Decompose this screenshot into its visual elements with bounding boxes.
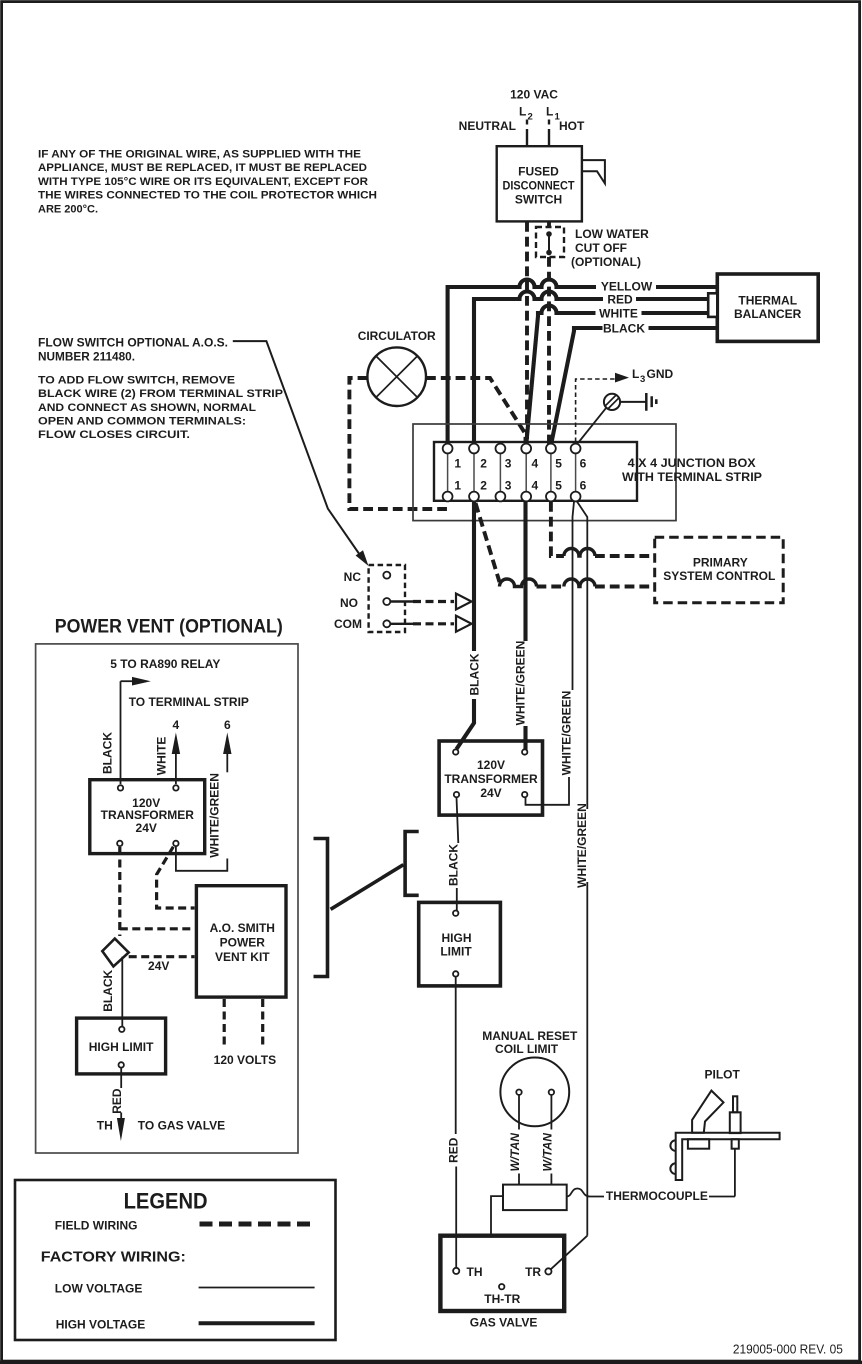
wire dashed 24V to vent kit: [129, 955, 195, 958]
arrowhead L3 GND: [615, 373, 629, 383]
svg-text:TH: TH: [97, 1119, 113, 1133]
svg-text:PRIMARY: PRIMARY: [693, 556, 748, 570]
svg-text:BLACK WIRE (2) FROM TERMINAL: BLACK WIRE (2) FROM TERMINAL STRIP: [38, 388, 283, 400]
wire bracket connector diagonal: [331, 865, 404, 910]
svg-text:GAS VALVE: GAS VALVE: [470, 1315, 538, 1329]
wire dashed pv transformer left down: [118, 847, 121, 936]
junction box outer: [413, 424, 676, 521]
svg-text:BLACK: BLACK: [468, 653, 482, 695]
wire screw to terminal 6: [578, 408, 606, 443]
wire W/TAN left: [518, 1095, 520, 1130]
wire W/TAN right: [550, 1095, 552, 1130]
wire block left lead to gas valve: [491, 1196, 503, 1236]
wire high limit down to gas valve TH: [455, 977, 457, 1135]
svg-text:IF ANY OF THE ORIGINAL WIRE, A: IF ANY OF THE ORIGINAL WIRE, AS SUPPLIED…: [38, 149, 361, 161]
svg-text:24V: 24V: [136, 821, 157, 835]
transformer 120V/24V box pv: [90, 780, 205, 854]
terminal circles row 2 bottom: [443, 492, 453, 502]
wire YELLOW: terminal 1 up and right to thermal balancer: [448, 280, 717, 447]
thermocouple probe tip: [733, 1096, 737, 1112]
svg-text:TO TERMINAL STRIP: TO TERMINAL STRIP: [129, 695, 249, 709]
terminal strip inner box: [434, 442, 637, 501]
wire nut diamond: [102, 939, 128, 967]
svg-text:6: 6: [580, 457, 587, 471]
wire L1 drop to switch: [548, 120, 550, 147]
svg-text:DISCONNECT: DISCONNECT: [503, 178, 576, 192]
svg-text:AND CONNECT AS SHOWN, NORMAL: AND CONNECT AS SHOWN, NORMAL: [38, 402, 256, 414]
svg-text:WITH TYPE 105°C WIRE OR ITS EQ: WITH TYPE 105°C WIRE OR ITS EQUIVALENT, …: [38, 176, 368, 188]
svg-text:CIRCULATOR: CIRCULATOR: [358, 329, 436, 343]
svg-text:RED: RED: [607, 293, 633, 307]
svg-text:HIGH VOLTAGE: HIGH VOLTAGE: [56, 1318, 146, 1332]
svg-text:VENT KIT: VENT KIT: [215, 950, 270, 964]
svg-text:NC: NC: [344, 570, 362, 584]
wire thermocouple squiggle: [567, 1189, 603, 1197]
svg-text:POWER VENT (OPTIONAL): POWER VENT (OPTIONAL): [55, 617, 283, 638]
svg-text:WHITE: WHITE: [155, 737, 169, 776]
fused disconnect switch box: [497, 146, 582, 221]
power vent enclosure box: [36, 644, 298, 1153]
svg-text:TO ADD FLOW SWITCH, REMOVE: TO ADD FLOW SWITCH, REMOVE: [38, 375, 235, 387]
svg-text:219005-000 REV. 05: 219005-000 REV. 05: [733, 1342, 843, 1357]
wire dashed to vent kit middle: [120, 927, 195, 930]
thermocouple probe body: [730, 1112, 741, 1133]
open arrow NO: [456, 594, 472, 610]
low voltage sample line: [199, 1287, 315, 1289]
wire L2 drop to switch: [526, 120, 528, 147]
wire RED: terminal 2 up and right to thermal balancer connector: [474, 292, 710, 448]
wire dashed terminal 5 to primary system control: [551, 502, 564, 556]
svg-text:5 TO RA890 RELAY: 5 TO RA890 RELAY: [110, 657, 220, 671]
svg-text:LIMIT: LIMIT: [440, 945, 472, 959]
svg-text:L: L: [632, 367, 639, 381]
wire BLACK terminal 2 down to transformer: [472, 502, 476, 652]
terminal pair links: [448, 453, 576, 492]
svg-text:NEUTRAL: NEUTRAL: [459, 119, 516, 133]
leader arrowhead: [356, 550, 369, 566]
svg-text:OPEN AND COMMON TERMINALS:: OPEN AND COMMON TERMINALS:: [38, 416, 246, 428]
coil limit terminals: [516, 1090, 521, 1095]
wire thin dashed pointer from terminal 6 to L3 GND: [576, 379, 615, 442]
high limit box pv: [77, 1018, 166, 1074]
wire thin WHITE/GREEN terminal 6 to transformer: [573, 502, 575, 691]
svg-text:THERMOCOUPLE: THERMOCOUPLE: [606, 1189, 708, 1203]
svg-text:3: 3: [505, 479, 512, 493]
svg-text:COIL LIMIT: COIL LIMIT: [495, 1042, 559, 1056]
wire transformer secondary black: [457, 798, 459, 844]
wire diamond down to high limit pv: [121, 957, 123, 1027]
high voltage sample line: [199, 1321, 315, 1325]
thermal balancer box: [717, 274, 818, 341]
svg-text:6: 6: [224, 718, 231, 732]
svg-text:2: 2: [528, 112, 533, 123]
wire WHITE: diagonal from terminal 4 up to corner then right: [526, 306, 710, 445]
svg-text:5: 5: [555, 457, 562, 471]
svg-text:TH-TR: TH-TR: [484, 1292, 520, 1306]
svg-text:120 VOLTS: 120 VOLTS: [214, 1053, 276, 1067]
wire BLACK: diagonal from terminal 5 up to corner then right: [551, 328, 717, 445]
wire dashed 120 volts feeds: [223, 999, 226, 1049]
thermocouple junction block: [503, 1185, 567, 1211]
arrow to gas valve: [117, 1118, 125, 1141]
svg-text:FACTORY WIRING:: FACTORY WIRING:: [41, 1249, 186, 1266]
svg-text:BLACK: BLACK: [101, 969, 115, 1011]
svg-text:SYSTEM CONTROL: SYSTEM CONTROL: [663, 569, 775, 583]
svg-text:COM: COM: [334, 617, 362, 631]
svg-text:NUMBER 211480.: NUMBER 211480.: [38, 350, 135, 364]
wire inside LWCO: [548, 234, 550, 253]
wire dashed L1 from LWCO down to terminal 5: [547, 257, 551, 445]
terminal TH: [453, 1268, 459, 1274]
transformer terminals: [453, 749, 458, 754]
svg-text:W/TAN: W/TAN: [540, 1133, 554, 1172]
svg-text:1: 1: [454, 479, 461, 493]
switch handle: [582, 160, 605, 183]
wire arrow to relay: [121, 680, 135, 682]
svg-text:FIELD WIRING: FIELD WIRING: [55, 1219, 138, 1233]
svg-text:NO: NO: [340, 596, 358, 610]
svg-text:CUT OFF: CUT OFF: [575, 241, 627, 255]
svg-text:BALANCER: BALANCER: [734, 307, 802, 321]
svg-text:WITH TERMINAL STRIP: WITH TERMINAL STRIP: [622, 470, 762, 484]
svg-text:HIGH: HIGH: [442, 931, 472, 945]
svg-text:RED: RED: [110, 1088, 124, 1114]
svg-text:L: L: [546, 105, 553, 119]
svg-text:2: 2: [480, 457, 487, 471]
gas valve box: [440, 1236, 564, 1311]
svg-text:THE WIRES CONNECTED TO THE COI: THE WIRES CONNECTED TO THE COIL PROTECTO…: [38, 190, 377, 202]
wire dashed circulator left loop to terminal 1 bottom: [349, 378, 445, 509]
svg-text:WHITE/GREEN: WHITE/GREEN: [560, 691, 574, 776]
svg-text:2: 2: [480, 479, 487, 493]
wire dashed pv transformer to vent kit upper: [157, 847, 195, 908]
svg-text:BLACK: BLACK: [100, 732, 114, 774]
ground symbol: [646, 393, 656, 411]
svg-text:ARE 200°C.: ARE 200°C.: [38, 203, 98, 215]
thermal balancer connector block: [708, 293, 717, 317]
svg-text:1: 1: [454, 457, 461, 471]
svg-text:HIGH LIMIT: HIGH LIMIT: [89, 1040, 154, 1054]
svg-text:LEGEND: LEGEND: [124, 1189, 208, 1214]
note to add flow switch: [38, 375, 283, 442]
svg-text:POWER: POWER: [220, 936, 266, 950]
terminal circles row 1 top: [443, 444, 453, 454]
svg-text:120V: 120V: [477, 758, 505, 772]
primary system control box: [655, 537, 784, 603]
svg-text:4: 4: [531, 457, 538, 471]
circulator lamp symbol: [367, 347, 426, 406]
connector bracket left-bracket: [405, 832, 419, 896]
svg-text:APPLIANCE, MUST BE REPLACED, I: APPLIANCE, MUST BE REPLACED, IT MUST BE …: [38, 162, 367, 174]
pilot bracket bumps: [670, 1140, 675, 1174]
svg-text:YELLOW: YELLOW: [601, 280, 653, 294]
wire dashed circulator right to terminal 4 top: [426, 378, 526, 441]
svg-text:TH: TH: [467, 1265, 483, 1279]
svg-text:LOW WATER: LOW WATER: [575, 227, 649, 241]
svg-text:RED: RED: [446, 1137, 460, 1163]
terminal COM: [383, 620, 390, 627]
svg-text:WHITE: WHITE: [599, 307, 638, 321]
note text block (wire replacement): [38, 149, 377, 216]
svg-text:HOT: HOT: [559, 119, 585, 133]
wire COM to arrow: [391, 623, 414, 625]
open arrow COM: [456, 616, 472, 632]
thermocouple probe neck: [732, 1139, 739, 1149]
high limit box center: [419, 902, 501, 986]
svg-text:TO GAS VALVE: TO GAS VALVE: [138, 1119, 225, 1133]
wire dashed L1 feed into low water cutoff: [547, 222, 551, 228]
wire NO to arrow: [391, 600, 414, 602]
svg-text:24V: 24V: [148, 959, 169, 973]
pilot bracket plate: [676, 1133, 780, 1180]
svg-text:PILOT: PILOT: [705, 1067, 741, 1081]
ground screw symbol: [604, 394, 620, 410]
svg-text:WHITE/GREEN: WHITE/GREEN: [208, 773, 222, 858]
wire WHITE/GREEN terminal 4 down to transformer: [523, 502, 527, 642]
svg-text:24V: 24V: [480, 786, 501, 800]
svg-text:FLOW CLOSES CIRCUIT.: FLOW CLOSES CIRCUIT.: [38, 429, 190, 441]
svg-text:FLOW SWITCH OPTIONAL A.O.S.: FLOW SWITCH OPTIONAL A.O.S.: [38, 336, 228, 350]
transformer 120V/24V box center: [439, 741, 542, 815]
wire thermocouple right lead: [603, 1149, 735, 1197]
low water cut off box: [536, 227, 564, 257]
svg-text:WHITE/GREEN: WHITE/GREEN: [514, 641, 528, 726]
wire thin WHITE/GREEN terminal 6 long run down: [577, 502, 587, 810]
svg-text:BLACK: BLACK: [446, 844, 460, 886]
terminal NC: [383, 572, 390, 579]
svg-text:A.O. SMITH: A.O. SMITH: [210, 921, 275, 935]
wire screw to ground: [620, 401, 646, 403]
transformer pv terminals: [118, 785, 123, 790]
svg-text:3: 3: [505, 457, 512, 471]
svg-text:W/TAN: W/TAN: [508, 1133, 522, 1172]
svg-text:120 VAC: 120 VAC: [510, 88, 558, 102]
svg-text:4 X 4 JUNCTION BOX: 4 X 4 JUNCTION BOX: [628, 456, 756, 470]
svg-text:TRANSFORMER: TRANSFORMER: [444, 772, 538, 786]
terminal TH-TR: [499, 1284, 504, 1289]
svg-text:THERMAL: THERMAL: [738, 294, 797, 308]
svg-text:LOW VOLTAGE: LOW VOLTAGE: [55, 1282, 143, 1296]
flow switch terminal box NC NO COM: [369, 565, 405, 632]
svg-text:5: 5: [555, 479, 562, 493]
leader line from flow switch note: [233, 341, 361, 556]
svg-text:6: 6: [580, 479, 587, 493]
connector bracket right-bracket: [314, 839, 328, 977]
svg-text:BLACK: BLACK: [603, 322, 645, 336]
svg-text:3: 3: [640, 374, 645, 385]
wire dashed L2 feed down to terminal 4: [525, 222, 529, 445]
wire TR to white/green: [551, 1236, 588, 1270]
wire dashed terminal 2 to primary system control: [476, 503, 500, 582]
svg-text:(OPTIONAL): (OPTIONAL): [571, 255, 641, 269]
pilot igniter: [692, 1091, 723, 1133]
svg-text:GND: GND: [647, 367, 674, 381]
svg-text:4: 4: [173, 718, 180, 732]
terminal NO: [383, 598, 390, 605]
svg-text:TR: TR: [525, 1265, 541, 1279]
svg-text:TRANSFORMER: TRANSFORMER: [101, 808, 195, 822]
manual reset coil limit circle: [500, 1058, 569, 1127]
AO Smith power vent kit box: [196, 886, 286, 997]
wire high limit pv down: [120, 1068, 122, 1089]
legend box: [15, 1180, 336, 1340]
svg-text:4: 4: [531, 479, 538, 493]
svg-text:WHITE/GREEN: WHITE/GREEN: [575, 803, 589, 888]
svg-text:FUSED: FUSED: [518, 164, 559, 178]
field wiring sample dashed: [200, 1222, 316, 1227]
svg-text:L: L: [519, 105, 526, 119]
svg-text:SWITCH: SWITCH: [515, 192, 562, 206]
pilot burner under plate: [688, 1139, 709, 1149]
